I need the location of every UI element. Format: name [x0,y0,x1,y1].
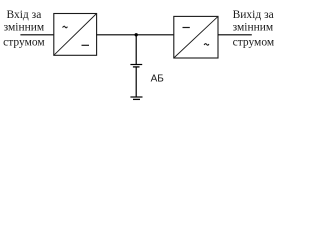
svg-text:Вихід за: Вихід за [233,9,274,21]
node: junction dot [135,33,138,36]
~ symbol of U1 [63,26,68,28]
wire: output wire [218,34,252,36]
rectifier U1 (AC/DC converter) [54,14,97,56]
battery АБ cell 2 long plate [130,96,142,98]
svg-text:АБ: АБ [151,74,165,85]
wire: vertical wire to battery [135,35,137,65]
inverter U2 (DC/AC converter) [174,16,218,58]
battery АБ cell 1 long plate [130,64,142,66]
battery АБ cell 2 short plate [133,98,140,100]
svg-text:струмом: струмом [3,36,45,48]
wire: DC link between converters [97,34,174,36]
label: AC input text [3,9,45,48]
label: AC output text [233,9,275,49]
minus symbol of U2 [183,27,190,29]
svg-text:Вхід за: Вхід за [6,9,41,21]
wire: between battery cells [135,67,137,97]
battery АБ cell 1 short plate [133,66,140,68]
svg-text:змінним: змінним [233,22,274,34]
svg-text:змінним: змінним [4,22,45,34]
wire: input wire [20,34,54,36]
~ symbol of U2 [204,44,209,46]
minus symbol of U1 [82,44,90,46]
svg-text:струмом: струмом [233,37,275,49]
